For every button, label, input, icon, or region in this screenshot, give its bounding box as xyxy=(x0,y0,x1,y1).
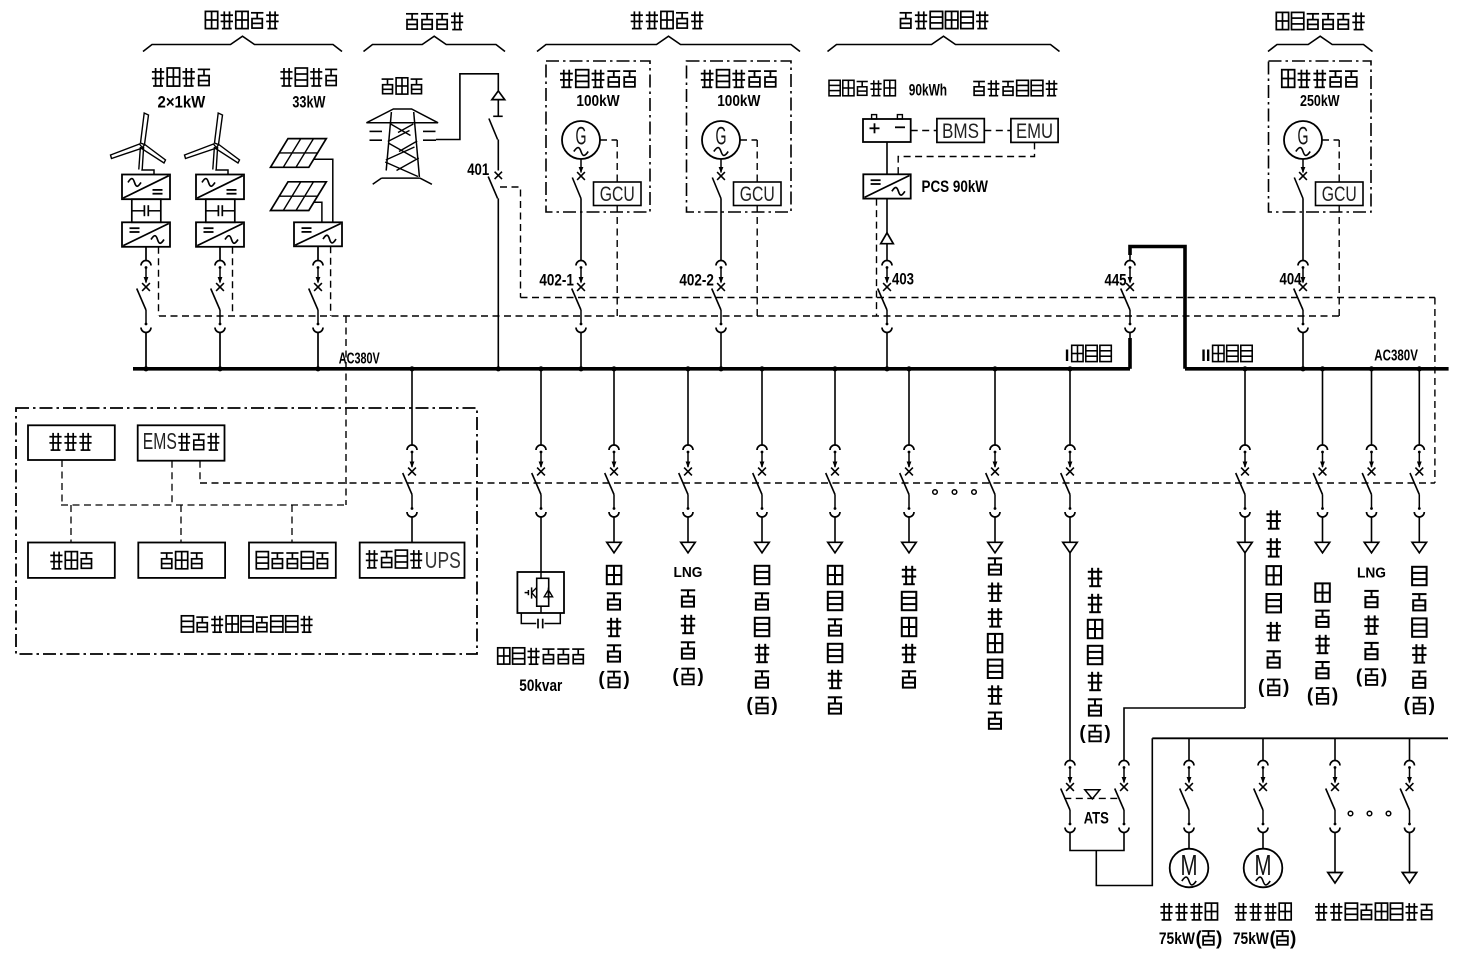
svg-text:EMS: EMS xyxy=(143,428,177,454)
svg-text:100kW: 100kW xyxy=(576,93,620,110)
svg-text:BMS: BMS xyxy=(942,120,979,143)
svg-text:): ) xyxy=(1283,677,1289,698)
svg-text:): ) xyxy=(1216,929,1222,950)
svg-text:LNG: LNG xyxy=(674,564,703,581)
svg-text:): ) xyxy=(1332,685,1338,706)
svg-text:(: ( xyxy=(1307,685,1314,706)
svg-text:(: ( xyxy=(672,666,679,687)
svg-text:(: ( xyxy=(1404,695,1411,716)
svg-text:(: ( xyxy=(1270,929,1277,950)
svg-text:): ) xyxy=(1290,929,1296,950)
svg-text:100kW: 100kW xyxy=(717,93,761,110)
svg-text:402-1: 402-1 xyxy=(539,272,574,290)
svg-text:90kWh: 90kWh xyxy=(909,82,947,100)
svg-text:(: ( xyxy=(598,669,605,690)
svg-text:(: ( xyxy=(1356,667,1363,688)
svg-text:445: 445 xyxy=(1105,272,1127,290)
svg-text:): ) xyxy=(1381,667,1387,688)
svg-text:GCU: GCU xyxy=(600,183,635,206)
svg-text:GCU: GCU xyxy=(740,183,775,206)
svg-text:403: 403 xyxy=(892,271,914,289)
svg-text:404: 404 xyxy=(1280,271,1303,289)
svg-text:M: M xyxy=(1255,850,1272,882)
svg-text:75kW: 75kW xyxy=(1159,930,1195,948)
svg-text:G: G xyxy=(1298,123,1309,151)
svg-text:(: ( xyxy=(1079,723,1086,744)
svg-text:2×1kW: 2×1kW xyxy=(158,94,206,112)
svg-text:EMU: EMU xyxy=(1016,120,1053,143)
svg-text:(: ( xyxy=(1258,677,1265,698)
svg-text:): ) xyxy=(771,695,777,716)
svg-text:II: II xyxy=(1201,347,1210,365)
svg-text:I: I xyxy=(1065,347,1070,365)
svg-text:): ) xyxy=(1104,723,1110,744)
svg-text:(: ( xyxy=(746,695,753,716)
svg-text:): ) xyxy=(623,669,629,690)
svg-text:LNG: LNG xyxy=(1357,565,1386,582)
svg-text:402-2: 402-2 xyxy=(679,272,714,290)
svg-text:G: G xyxy=(716,123,727,151)
svg-text:401: 401 xyxy=(467,161,489,179)
svg-text:G: G xyxy=(576,123,587,151)
svg-text:): ) xyxy=(697,666,703,687)
svg-text:33kW: 33kW xyxy=(292,94,325,112)
svg-text:ATS: ATS xyxy=(1084,809,1109,828)
svg-text:M: M xyxy=(1181,850,1198,882)
svg-text:AC380V: AC380V xyxy=(339,351,380,368)
svg-text:GCU: GCU xyxy=(1322,183,1357,206)
svg-text:50kvar: 50kvar xyxy=(519,677,562,695)
svg-text:AC380V: AC380V xyxy=(1374,348,1418,365)
svg-text:PCS 90kW: PCS 90kW xyxy=(922,178,989,196)
svg-text:UPS: UPS xyxy=(425,547,461,573)
svg-text:250kW: 250kW xyxy=(1300,93,1340,110)
svg-text:): ) xyxy=(1429,695,1435,716)
svg-text:75kW: 75kW xyxy=(1233,930,1269,948)
svg-text:(: ( xyxy=(1196,929,1203,950)
